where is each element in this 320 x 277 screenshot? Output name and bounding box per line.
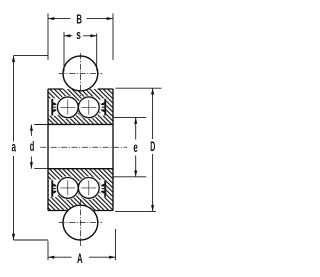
bearing section outline [48,89,113,211]
svg-text:A: A [77,252,83,267]
bearing axis centerline [40,146,127,148]
seal groove white slot upper-left [49,98,58,115]
svg-text:d: d [30,140,35,155]
seal upper-right [101,99,106,116]
dimension d (bore diameter) [31,125,48,169]
svg-text:D: D [150,140,155,155]
dimension B (width) [48,13,113,60]
ball front view bottom [63,205,98,240]
upper ring cross-section hatched band (outer ring + inner ring, raceway gaps subtracted) [48,89,113,124]
svg-text:s: s [76,28,81,42]
dimension a (overall height over balls) [14,56,49,240]
lower ring cross-section hatched band [48,169,113,211]
ball lower-left [57,178,78,199]
svg-text:e: e [133,141,137,156]
dimension s (ball diameter) [64,32,97,72]
svg-text:a: a [12,141,17,156]
ball upper-right [78,97,99,118]
ball front view top [63,56,98,91]
svg-text:B: B [76,14,82,27]
seal lower-right [101,180,106,197]
dimension D (outer diameter) [115,88,162,211]
bottom ball centerlines [59,199,102,246]
seal groove white slot upper-right [100,98,106,115]
dimension e (inner ring shoulder) [113,117,146,176]
ball lower-right [78,178,99,199]
seal lower-left [51,180,56,197]
top ball centerlines [59,53,102,96]
ball center crosses [60,100,96,196]
seal groove white slot lower-right [100,180,106,197]
seal upper-left [51,99,56,116]
seal groove white slot lower-left [49,180,58,197]
ball upper-left [57,97,78,118]
dimension A (width incl. seal lip) [48,229,115,260]
